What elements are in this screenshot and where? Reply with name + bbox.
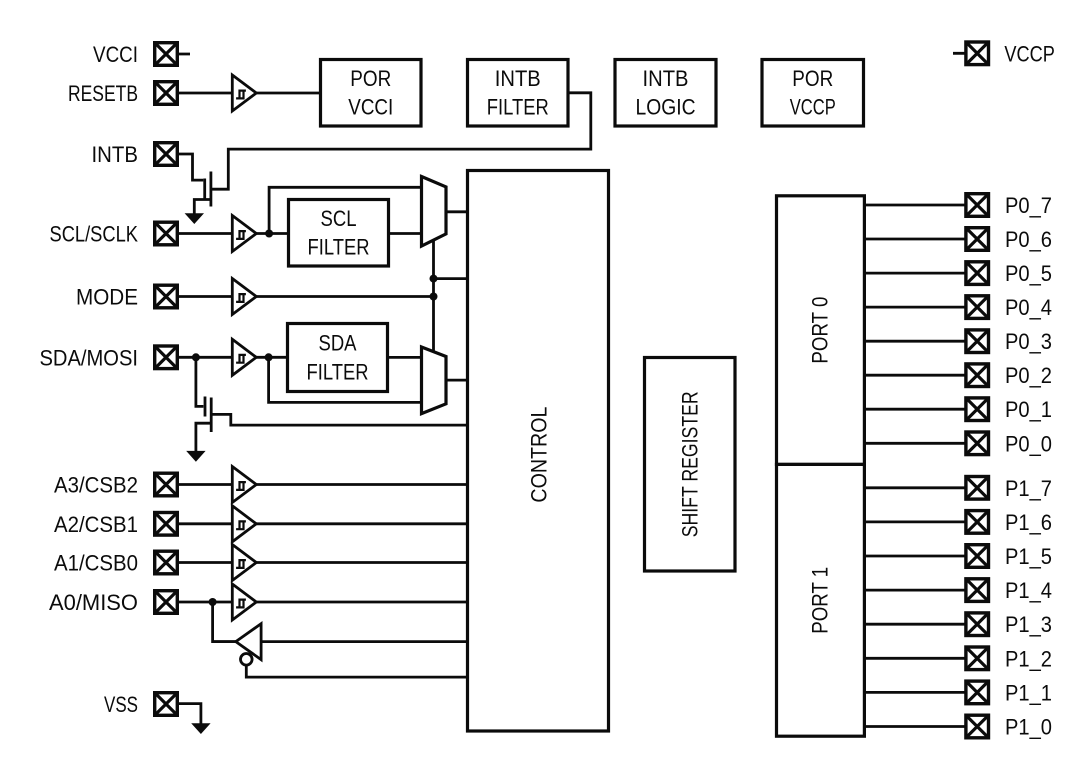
svg-text:P0_4: P0_4 xyxy=(1005,295,1052,320)
svg-text:P1_0: P1_0 xyxy=(1005,715,1052,740)
svg-text:RESETB: RESETB xyxy=(68,81,138,106)
svg-text:P1_6: P1_6 xyxy=(1005,510,1052,535)
svg-text:FILTER: FILTER xyxy=(308,235,370,260)
svg-text:P0_6: P0_6 xyxy=(1005,227,1052,252)
svg-text:VSS: VSS xyxy=(104,692,138,717)
svg-text:SCL: SCL xyxy=(321,206,357,231)
svg-text:POR: POR xyxy=(792,66,833,91)
svg-text:VCCP: VCCP xyxy=(1004,41,1055,66)
svg-text:A2/CSB1: A2/CSB1 xyxy=(54,512,138,537)
svg-text:SCL/SCLK: SCL/SCLK xyxy=(50,222,139,247)
svg-text:P1_2: P1_2 xyxy=(1005,646,1052,671)
svg-text:A0/MISO: A0/MISO xyxy=(49,590,138,615)
svg-text:VCCI: VCCI xyxy=(348,95,393,120)
svg-text:PORT 1: PORT 1 xyxy=(808,567,833,634)
svg-text:CONTROL: CONTROL xyxy=(527,407,552,503)
svg-text:P0_0: P0_0 xyxy=(1005,431,1052,456)
svg-text:VCCP: VCCP xyxy=(790,95,836,120)
svg-text:P1_4: P1_4 xyxy=(1005,578,1052,603)
svg-text:A1/CSB0: A1/CSB0 xyxy=(54,551,138,576)
svg-text:P0_2: P0_2 xyxy=(1005,363,1052,388)
svg-text:FILTER: FILTER xyxy=(307,359,369,384)
svg-text:P1_3: P1_3 xyxy=(1005,612,1052,637)
svg-text:SHIFT REGISTER: SHIFT REGISTER xyxy=(678,391,703,537)
svg-text:SDA: SDA xyxy=(319,331,357,356)
svg-text:INTB: INTB xyxy=(643,66,689,91)
svg-text:P0_3: P0_3 xyxy=(1005,329,1052,354)
svg-text:INTB: INTB xyxy=(92,142,139,167)
svg-text:LOGIC: LOGIC xyxy=(636,95,696,120)
svg-text:P0_5: P0_5 xyxy=(1005,261,1052,286)
svg-text:P0_1: P0_1 xyxy=(1005,397,1052,422)
svg-text:A3/CSB2: A3/CSB2 xyxy=(54,473,138,498)
svg-text:SDA/MOSI: SDA/MOSI xyxy=(40,345,139,370)
svg-text:MODE: MODE xyxy=(76,285,138,310)
svg-text:P0_7: P0_7 xyxy=(1005,193,1052,218)
svg-text:PORT 0: PORT 0 xyxy=(808,297,833,364)
svg-text:FILTER: FILTER xyxy=(487,95,549,120)
svg-text:POR: POR xyxy=(350,66,391,91)
svg-text:VCCI: VCCI xyxy=(93,42,138,67)
svg-text:INTB: INTB xyxy=(495,66,541,91)
svg-text:P1_1: P1_1 xyxy=(1005,680,1052,705)
svg-text:P1_7: P1_7 xyxy=(1005,476,1052,501)
svg-text:P1_5: P1_5 xyxy=(1005,544,1052,569)
